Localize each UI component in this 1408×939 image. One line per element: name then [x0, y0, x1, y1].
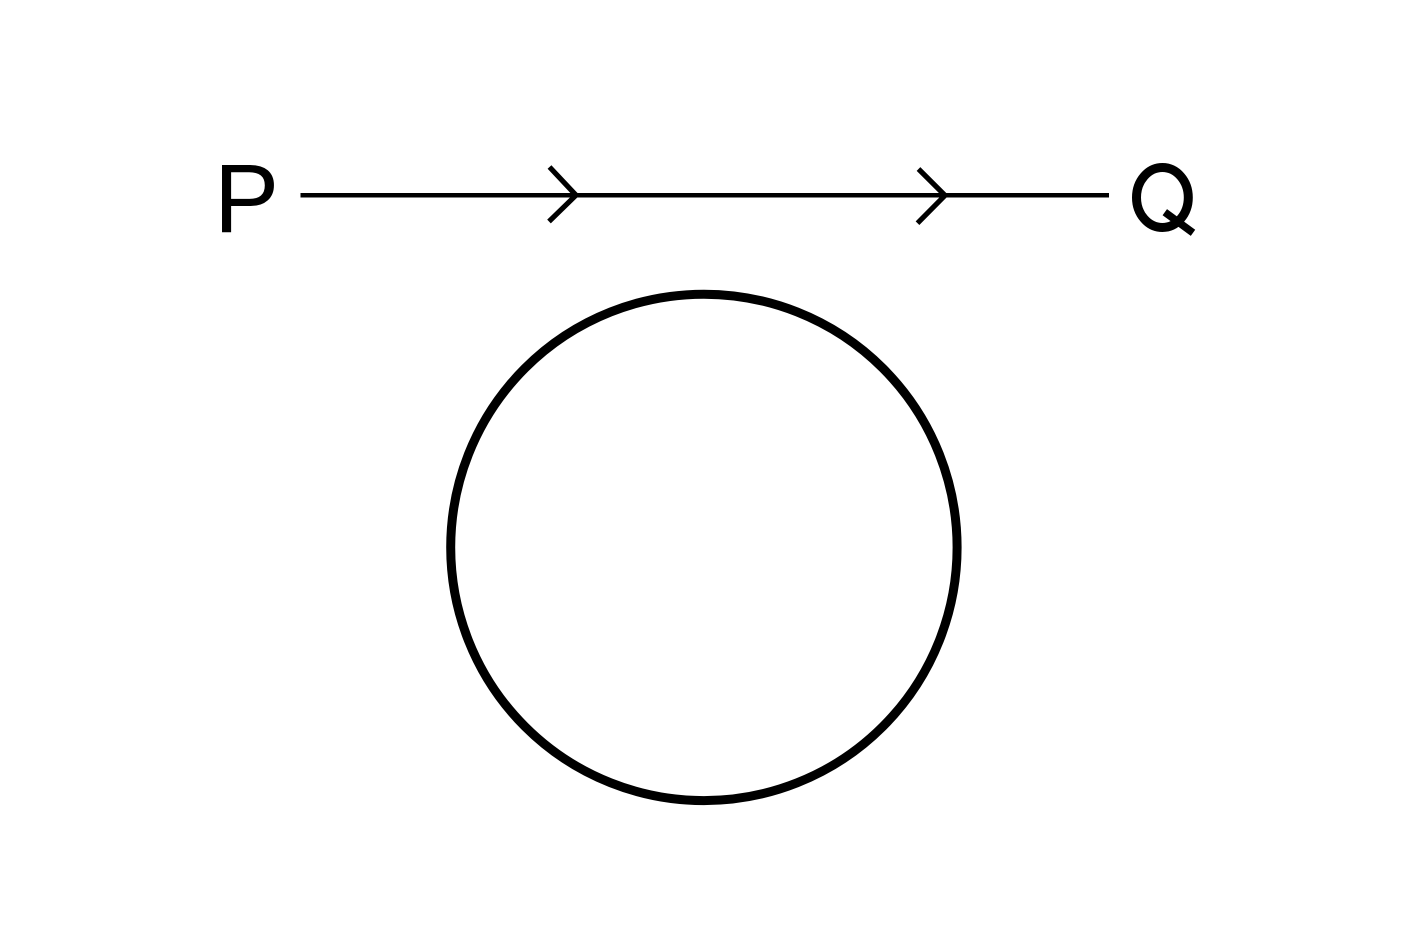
svg-text:P: P [214, 144, 279, 253]
